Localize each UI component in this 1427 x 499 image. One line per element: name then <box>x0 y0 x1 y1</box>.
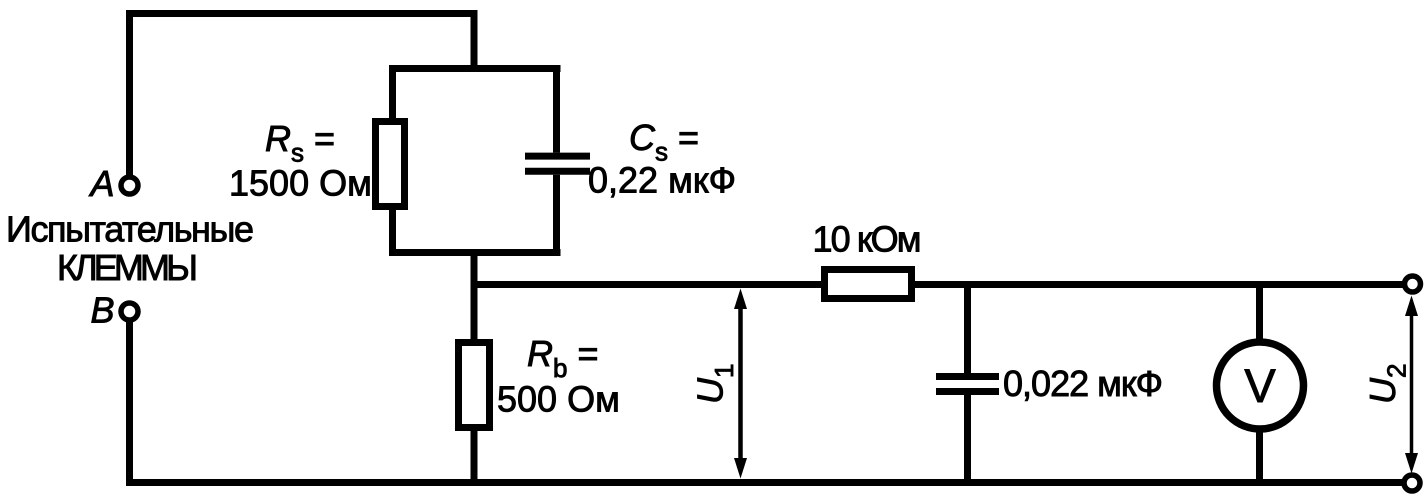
svg-text:10 кОм: 10 кОм <box>813 219 922 260</box>
svg-text:500 Ом: 500 Ом <box>497 379 620 420</box>
svg-text:0,022 мкФ: 0,022 мкФ <box>1003 363 1163 404</box>
svg-text:V: V <box>1244 359 1276 412</box>
svg-text:Испытательные: Испытательные <box>6 209 254 250</box>
svg-text:1500 Ом: 1500 Ом <box>229 163 372 204</box>
svg-text:B: B <box>91 290 115 331</box>
svg-text:КЛЕММЫ: КЛЕММЫ <box>57 247 198 288</box>
svg-text:A: A <box>89 163 115 204</box>
svg-text:0,22 мкФ: 0,22 мкФ <box>588 160 736 201</box>
